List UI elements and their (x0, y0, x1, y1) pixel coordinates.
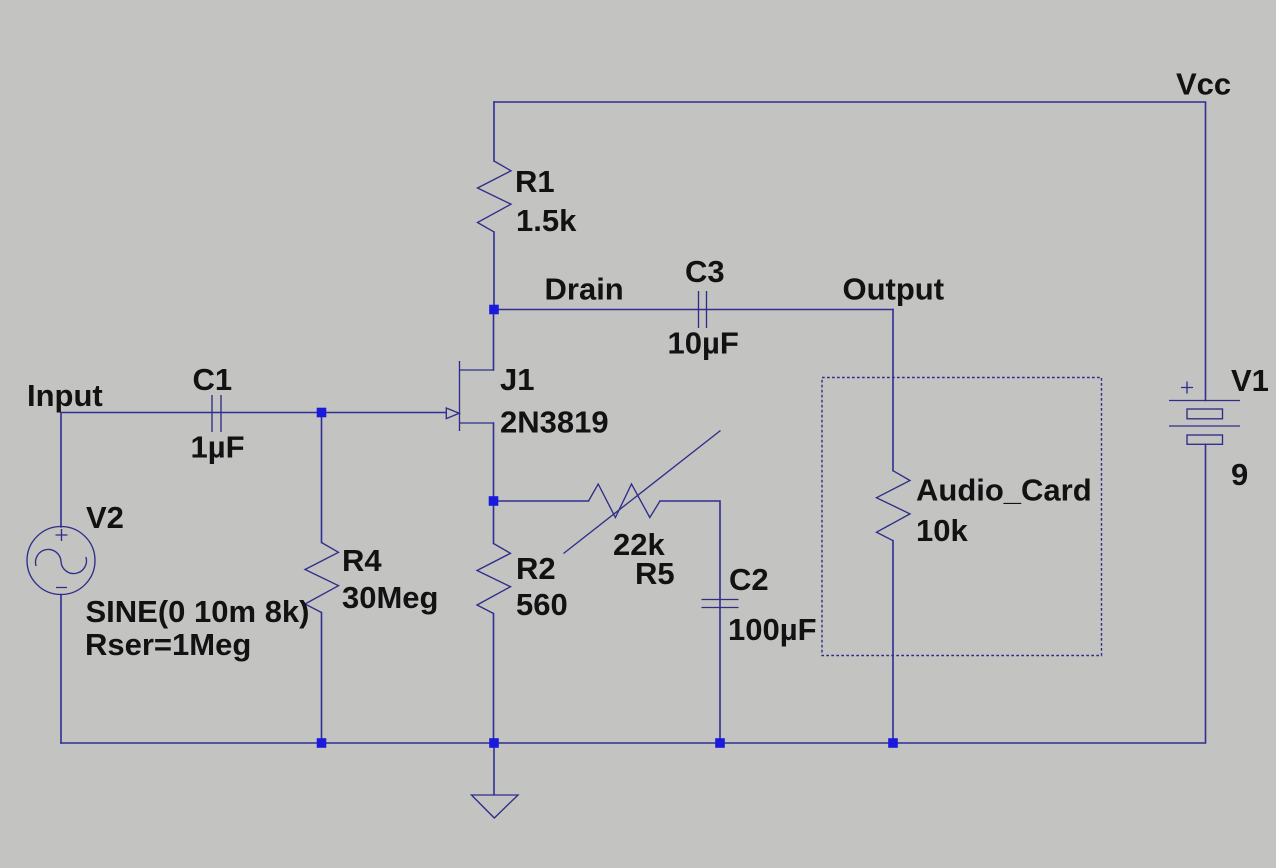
svg-text:10µF: 10µF (668, 326, 739, 361)
svg-text:10k: 10k (916, 513, 968, 548)
svg-text:C1: C1 (193, 362, 233, 397)
svg-text:Vcc: Vcc (1176, 67, 1231, 102)
svg-text:C3: C3 (685, 254, 725, 289)
svg-text:Output: Output (843, 272, 945, 307)
svg-text:1µF: 1µF (191, 430, 245, 465)
svg-text:Rser=1Meg: Rser=1Meg (85, 627, 251, 662)
svg-text:560: 560 (516, 587, 568, 622)
svg-text:R5: R5 (635, 556, 675, 591)
svg-text:Audio_Card: Audio_Card (916, 473, 1092, 508)
svg-text:R4: R4 (342, 543, 382, 578)
svg-text:100µF: 100µF (728, 612, 817, 647)
svg-text:Drain: Drain (545, 272, 624, 307)
svg-text:J1: J1 (500, 362, 534, 397)
svg-text:2N3819: 2N3819 (500, 405, 609, 440)
svg-text:1.5k: 1.5k (516, 203, 577, 238)
svg-text:V1: V1 (1231, 363, 1269, 398)
svg-text:Input: Input (27, 378, 103, 413)
svg-text:R1: R1 (515, 164, 555, 199)
svg-text:R2: R2 (516, 551, 556, 586)
svg-text:30Meg: 30Meg (342, 580, 438, 615)
svg-text:SINE(0 10m 8k): SINE(0 10m 8k) (86, 594, 310, 629)
svg-text:C2: C2 (729, 562, 769, 597)
svg-text:9: 9 (1231, 457, 1248, 492)
svg-text:V2: V2 (86, 500, 124, 535)
